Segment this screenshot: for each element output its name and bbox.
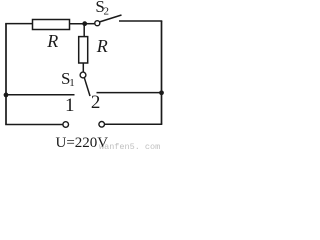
switch S2 blade (open) [100, 15, 122, 22]
wire stub vertical resistor to switch S1 [82, 63, 84, 73]
svg-text:1: 1 [65, 95, 75, 116]
svg-text:R: R [46, 31, 58, 51]
wire stub node to vertical resistor R [83, 24, 85, 37]
svg-text:1: 1 [69, 77, 75, 89]
wire right rail [161, 21, 163, 124]
wire top-left from rail to resistor R [5, 23, 33, 25]
wire node to switch S2 [85, 23, 95, 25]
switch S1 blade (thrown toward contact 2) [84, 78, 90, 96]
svg-text:R: R [96, 36, 108, 56]
supply terminal circle (right) [99, 122, 105, 128]
switch S2 hinge circle [95, 21, 100, 26]
svg-text:wanfen5. com: wanfen5. com [99, 142, 160, 152]
resistor R (horizontal, top) [33, 20, 70, 30]
resistor R (vertical) [79, 37, 88, 63]
wire contact 2 to right rail [97, 92, 163, 94]
svg-text:2: 2 [104, 6, 110, 18]
junction dot on right rail [159, 90, 164, 95]
supply terminal circle (left) [63, 122, 69, 128]
wire bottom-left from rail to supply terminal [5, 124, 63, 126]
wire top-right from S2 to right rail [119, 20, 162, 22]
switch S1 hinge circle [80, 72, 86, 78]
node junction dot (top) [82, 21, 87, 26]
wire contact 1 to left rail [5, 94, 74, 96]
svg-text:2: 2 [91, 92, 101, 113]
junction dot on left rail [4, 93, 9, 98]
wire resistor R to node [70, 23, 87, 25]
wire bottom-right from terminal to right rail [105, 123, 163, 125]
wire left rail [5, 24, 7, 125]
